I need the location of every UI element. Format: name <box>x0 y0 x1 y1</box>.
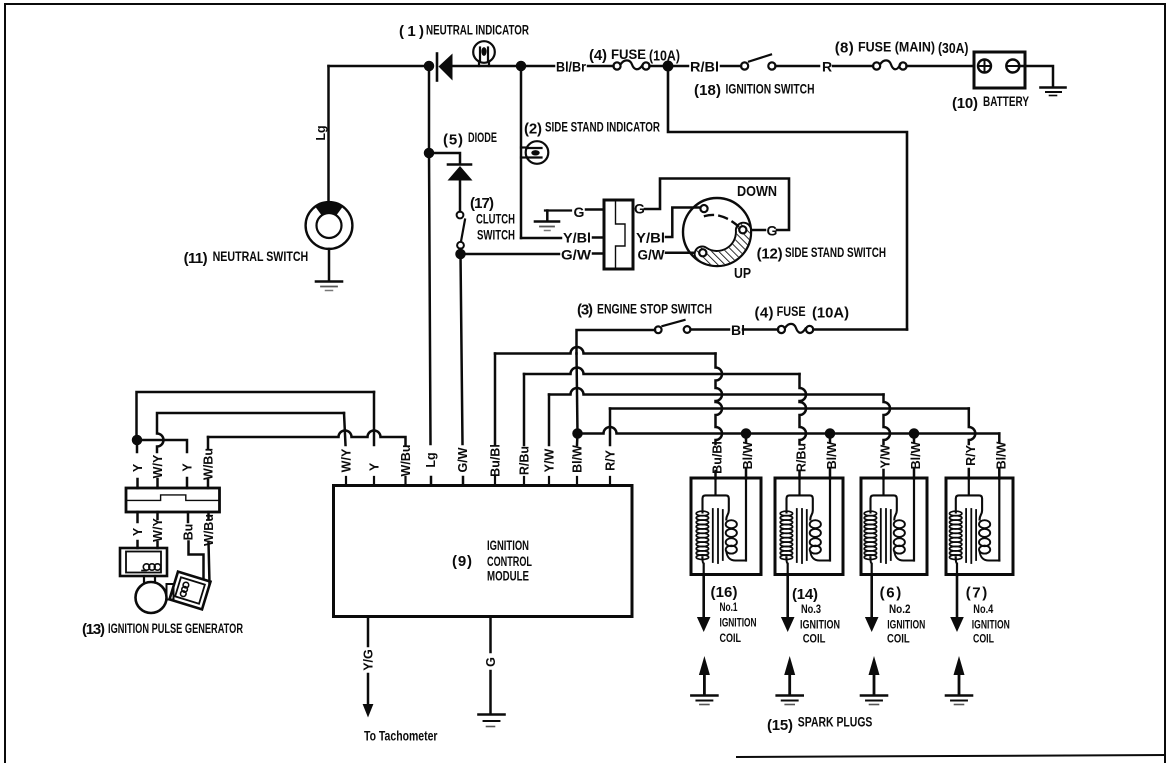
label (2) SIDE STAND INDICATOR <box>524 120 660 138</box>
connector: pulse generator 4P <box>126 488 220 512</box>
svg-text:Bl/W: Bl/W <box>741 441 755 469</box>
svg-text:R/Y: R/Y <box>964 444 978 466</box>
svg-text:IGNITION PULSE GENERATOR: IGNITION PULSE GENERATOR <box>108 621 243 636</box>
svg-text:Y: Y <box>131 527 145 536</box>
spark plug 3 <box>777 656 803 705</box>
svg-text:R/Bu: R/Bu <box>795 443 809 472</box>
svg-text:W/Y: W/Y <box>151 518 165 542</box>
node: Bl/W junction <box>574 430 582 438</box>
wire: indicator corner to Y/Bl label <box>521 237 561 240</box>
svg-text:R: R <box>822 59 832 75</box>
svg-text:Y/W: Y/W <box>879 444 893 468</box>
wire: coil3 Bl/W stub <box>829 469 832 479</box>
svg-text:W/Y: W/Y <box>340 448 354 472</box>
label (10) BATTERY <box>952 94 1029 112</box>
svg-text:NEUTRAL INDICATOR: NEUTRAL INDICATOR <box>426 23 529 38</box>
pickup coil right (rotated) <box>170 572 211 610</box>
bus wire Y/W with hop <box>549 388 884 394</box>
side stand switch: terminal pins <box>699 205 746 256</box>
svg-text:R/Bl: R/Bl <box>690 59 719 75</box>
wire: W/Y pin into pickup <box>156 542 159 548</box>
svg-text:(6): (6) <box>880 585 902 602</box>
svg-text:G: G <box>484 657 498 667</box>
wire: coil2 Y/W drop with hops <box>884 395 891 445</box>
svg-text:UP: UP <box>734 265 751 282</box>
label (14) No.3 IGNITION COIL <box>792 586 840 646</box>
pickup right tab <box>167 584 174 600</box>
svg-text:(10): (10) <box>952 95 978 112</box>
svg-text:(2): (2) <box>524 121 542 138</box>
svg-text:G: G <box>634 201 645 217</box>
wire: battery rail top <box>329 65 430 68</box>
side stand switch: DOWN position dashed contact <box>705 215 738 226</box>
wire: clutch switch to junction <box>459 249 462 254</box>
wire: Bl/W riser to ICM <box>576 434 579 446</box>
svg-text:FUSE: FUSE <box>777 304 806 319</box>
wire: junction L-path down right side <box>668 66 907 330</box>
svg-text:Y: Y <box>131 463 145 472</box>
ground: G pin ground symbol <box>535 211 571 231</box>
wire: Y/W riser to ICM <box>548 395 551 446</box>
svg-text:COIL: COIL <box>887 632 910 646</box>
spark plug 4 <box>946 656 972 705</box>
wire: G/W riser to ICM <box>461 254 463 444</box>
wire: Y riser1 below junction <box>136 440 139 452</box>
svg-text:Lg: Lg <box>314 125 328 140</box>
svg-text:SIDE STAND INDICATOR: SIDE STAND INDICATOR <box>545 120 660 135</box>
svg-text:IGNITION: IGNITION <box>972 618 1010 632</box>
ignition coil (16) No.1 <box>691 478 761 575</box>
svg-text:W/Bu: W/Bu <box>202 448 216 480</box>
svg-text:(17): (17) <box>470 195 494 212</box>
wire: Y net horizontal to second riser <box>137 440 187 452</box>
wire: G loop to side stand switch (DOWN side) <box>645 179 789 231</box>
wire: Bu/Bl riser to ICM <box>494 354 497 446</box>
wire: W/Y line <box>157 413 344 452</box>
svg-text:(8): (8) <box>835 40 854 57</box>
svg-text:(14): (14) <box>792 586 818 603</box>
svg-text:BATTERY: BATTERY <box>983 94 1029 109</box>
side stand switch: moving contact (UP, hatched) <box>702 230 743 258</box>
wire: coil4 R/Y drop with hop <box>969 409 976 445</box>
svg-text:(5): (5) <box>443 132 463 149</box>
wire: fuse8 to battery <box>907 65 975 68</box>
wire: R/Y riser to ICM <box>609 409 612 446</box>
switch (11) neutral switch <box>306 202 353 249</box>
wire: fuse4 to junction <box>650 65 669 68</box>
svg-text:(18): (18) <box>694 82 721 99</box>
svg-text:G/W: G/W <box>638 247 666 263</box>
label (4) FUSE (10A) lower <box>755 304 850 322</box>
svg-text:To Tachometer: To Tachometer <box>364 729 438 744</box>
wire: Bl/Br to fuse4 <box>588 65 614 68</box>
wire: Y riser to ICM <box>373 392 376 445</box>
label (17) CLUTCH SWITCH <box>470 195 515 243</box>
svg-text:Y: Y <box>181 463 195 472</box>
svg-text:R/Bu: R/Bu <box>518 446 532 475</box>
ground: battery <box>1041 88 1066 96</box>
wire: coil4 Bl/W stub <box>998 469 1001 479</box>
label (4) FUSE (10A) top <box>589 47 680 65</box>
node: rail junction at diode branch <box>425 62 433 70</box>
svg-text:G/W: G/W <box>561 247 592 263</box>
wire: R/Bl to ignition switch <box>721 65 741 68</box>
wire: Y riser2 stub <box>186 478 189 488</box>
wire: G/W to switch bottom terminal <box>666 252 699 255</box>
svg-text:SPARK PLUGS: SPARK PLUGS <box>798 715 873 730</box>
wire: coil1 Bu/Bl drop with hops <box>716 354 723 445</box>
node: clutch/GW junction <box>457 250 465 258</box>
svg-text:MODULE: MODULE <box>487 569 529 584</box>
svg-text:(9): (9) <box>452 553 472 570</box>
svg-text:(11): (11) <box>184 250 208 267</box>
wire: engine stop drop to Bl/W <box>577 354 578 434</box>
svg-text:CLUTCH: CLUTCH <box>476 212 515 227</box>
wire: coil2 Y/W stub <box>882 470 885 479</box>
svg-text:(4): (4) <box>755 305 774 322</box>
pickup neck <box>144 576 155 583</box>
label (18) IGNITION SWITCH <box>694 82 815 100</box>
svg-text:(13): (13) <box>82 621 105 638</box>
wire: coil1 Bl/W stub <box>745 469 748 479</box>
label (15) SPARK PLUGS <box>767 715 872 735</box>
svg-text:Bu/Bl: Bu/Bl <box>711 441 725 474</box>
wire: Bl label to fuse <box>743 328 778 331</box>
wire: W/Y riser to ICM <box>344 413 346 445</box>
pulse rotor <box>136 582 167 613</box>
svg-text:IGNITION: IGNITION <box>720 616 757 630</box>
svg-text:COIL: COIL <box>720 631 742 645</box>
wire: engine stop row left corner <box>577 330 656 354</box>
wire: Bu pin below connector <box>187 512 190 522</box>
svg-text:DOWN: DOWN <box>737 183 777 200</box>
wire: coil3 R/Bu drop with hops <box>800 374 807 444</box>
ground: neutral switch <box>316 282 342 291</box>
label (5) DIODE <box>443 130 497 149</box>
svg-text:No.3: No.3 <box>801 602 821 616</box>
wire: coil1 Bl/W drop <box>745 434 748 443</box>
wire: W/Y riser stub <box>156 479 159 488</box>
ICM pin stubs <box>346 477 610 486</box>
wire: R/Bu riser to ICM <box>523 374 526 445</box>
svg-text:Bu/Bl: Bu/Bl <box>489 444 503 477</box>
wire: coil3 R/Bu stub <box>798 471 801 479</box>
ground: ICM <box>479 715 505 727</box>
wire: coil4 R/Y stub <box>968 469 971 479</box>
wire: coil2 Bl/W stub <box>913 469 916 479</box>
svg-text:(16): (16) <box>711 584 738 601</box>
svg-text:Bu: Bu <box>182 524 196 541</box>
wire: branch to diode5 <box>429 153 460 164</box>
node: rail junction side stand branch <box>517 62 525 70</box>
svg-text:Y/W: Y/W <box>543 448 557 472</box>
bus wire R/Bu with hop <box>524 368 800 375</box>
svg-text:IGNITION SWITCH: IGNITION SWITCH <box>726 82 815 97</box>
wire: diode5 to clutch switch <box>459 180 462 212</box>
lamp (1) neutral indicator <box>473 41 495 66</box>
label (11) NEUTRAL SWITCH <box>184 249 309 267</box>
lamp (2) side stand indicator <box>521 141 548 164</box>
svg-text:(15): (15) <box>767 717 793 734</box>
svg-text:COIL: COIL <box>803 632 826 646</box>
wire: Bu pin to rotated pickup <box>189 542 204 579</box>
wire: Y/G to tachometer arrow <box>367 674 370 705</box>
wire: G ground pin <box>489 617 492 653</box>
svg-text:COIL: COIL <box>973 632 994 646</box>
wire: coil1 Bu/Bl stub <box>714 471 717 479</box>
svg-text:CONTROL: CONTROL <box>487 554 532 569</box>
wire: G/W junction to label <box>461 253 560 256</box>
wire: battery minus to ground <box>1019 66 1053 87</box>
switch (12) side stand switch body <box>683 198 751 266</box>
wire: fuse to right riser <box>813 328 907 331</box>
wire: Y pin into pickup <box>136 541 139 548</box>
svg-text:SWITCH: SWITCH <box>477 228 515 243</box>
svg-text:SIDE STAND SWITCH: SIDE STAND SWITCH <box>785 245 886 260</box>
wire: G label to connector <box>586 208 604 211</box>
wire: Y pin below connector <box>136 512 139 522</box>
svg-text:ENGINE STOP SWITCH: ENGINE STOP SWITCH <box>597 302 712 317</box>
node: junction diode5 branch <box>425 149 433 157</box>
svg-text:R/Y: R/Y <box>604 449 618 471</box>
wire: side stand indicator drop <box>520 66 523 238</box>
svg-text:(10A): (10A) <box>812 305 849 322</box>
bus wire Bu/Bl with hop <box>495 347 716 354</box>
svg-text:(3): (3) <box>577 302 593 319</box>
label (8) FUSE (MAIN) (30A) <box>835 40 969 58</box>
wire: rail indicator to Bl/Br <box>521 65 554 68</box>
svg-text:G: G <box>574 204 585 220</box>
svg-text:FUSE: FUSE <box>611 47 646 62</box>
label (16) No.1 IGNITION COIL <box>711 584 757 645</box>
wire: Lg long vertical to ICM <box>428 66 431 153</box>
pickup coil left (13) <box>120 548 167 576</box>
wire: W/Bu pin below connector <box>207 512 210 519</box>
connector: 6P coupler <box>604 200 633 269</box>
node: coil2 Bl/W junction <box>910 430 918 438</box>
wire: neutral switch to ground <box>328 249 331 281</box>
svg-text:NEUTRAL SWITCH: NEUTRAL SWITCH <box>213 249 309 264</box>
wire: W/Bu left riser <box>207 437 210 448</box>
fuse (8) main 30A <box>873 60 907 69</box>
svg-text:FUSE (MAIN): FUSE (MAIN) <box>858 40 935 55</box>
wire: G label to ground <box>489 671 492 714</box>
wire: coil4 Bl/W end drop <box>998 434 1001 443</box>
wire: Y/Bl label to connector <box>593 236 604 239</box>
node: Y net junction <box>133 436 141 444</box>
diode D on rail (neutral circuit) <box>437 54 453 81</box>
svg-text:Bl/W: Bl/W <box>909 441 923 469</box>
diode (5) <box>448 165 473 181</box>
spark plug 1 <box>691 656 717 705</box>
svg-text:IGNITION: IGNITION <box>887 618 925 632</box>
wire: G label to switch terminal <box>746 229 765 232</box>
svg-text:Lg: Lg <box>424 452 438 467</box>
wire: rail diode to indicator <box>452 65 521 68</box>
wire: W/Y pin below connector <box>156 512 159 519</box>
ignition coil (14) No.3 <box>775 478 843 575</box>
battery (10) <box>974 52 1025 88</box>
spark plug 2 <box>861 656 887 705</box>
wire: R to fuse8 <box>833 65 873 68</box>
svg-text:W/Bu: W/Bu <box>399 445 413 477</box>
wire: ignition switch to R <box>776 65 820 68</box>
svg-text:Bl/W: Bl/W <box>571 445 585 473</box>
svg-text:No.4: No.4 <box>973 602 993 616</box>
ignition coil (7) No.4 <box>946 478 1013 575</box>
wire: G/W stub to ICM pin <box>462 477 465 486</box>
label (6) No.2 IGNITION COIL <box>880 585 926 646</box>
bus wire R/Y <box>610 407 969 410</box>
svg-text:(1): (1) <box>399 23 424 40</box>
svg-text:(30A): (30A) <box>938 40 969 57</box>
svg-text:(4): (4) <box>589 47 607 64</box>
svg-text:Y/Bl: Y/Bl <box>636 230 665 246</box>
svg-text:G/W: G/W <box>456 447 470 472</box>
wire: G/W label to connector <box>593 252 604 255</box>
fuse (4) 10A on rail <box>613 60 649 69</box>
switch (3) engine stop switch <box>655 320 691 333</box>
label (12) SIDE STAND SWITCH <box>757 245 886 263</box>
IC module (9) box <box>334 486 633 617</box>
label (7) No.4 IGNITION COIL <box>966 585 1010 646</box>
svg-text:(12): (12) <box>757 246 783 263</box>
svg-text:No.1: No.1 <box>720 600 738 614</box>
svg-text:(10A): (10A) <box>649 48 680 65</box>
wire: W/Bu pin to rotated pickup <box>209 542 210 584</box>
wire: W/Bu riser stub <box>207 480 210 488</box>
svg-text:Y/Bl: Y/Bl <box>563 230 591 246</box>
svg-text:G: G <box>767 223 778 239</box>
svg-text:No.2: No.2 <box>889 602 911 616</box>
label (1) NEUTRAL INDICATOR <box>399 23 529 41</box>
wire: Y/Bl to switch top terminal <box>666 208 700 238</box>
label (3) ENGINE STOP SWITCH <box>577 302 712 319</box>
svg-text:Bl/W: Bl/W <box>994 441 1008 469</box>
svg-text:Y/G: Y/G <box>362 649 376 671</box>
switch (18) ignition switch <box>741 55 776 70</box>
svg-text:(7): (7) <box>966 585 988 602</box>
svg-text:DIODE: DIODE <box>468 130 497 145</box>
wire: coil3 Bl/W drop <box>829 434 832 443</box>
node: coil3 Bl/W junction <box>826 430 834 438</box>
wire: Y net top line to ICM <box>137 392 375 440</box>
label (9) IGNITION CONTROL MODULE <box>452 538 532 584</box>
svg-text:IGNITION: IGNITION <box>487 538 529 553</box>
wire: junction to R/Bl <box>668 65 688 68</box>
label (13) IGNITION PULSE GENERATOR <box>82 621 243 638</box>
wire: Lg drop to neutral switch <box>327 66 330 202</box>
wire: Y riser1 stub <box>136 479 139 488</box>
svg-text:IGNITION: IGNITION <box>800 618 840 632</box>
switch (17) clutch switch <box>457 212 465 249</box>
svg-text:Bl/Br: Bl/Br <box>556 59 586 75</box>
node: coil1 Bl/W junction <box>742 430 750 438</box>
node: rail junction fuse4 out <box>664 62 672 70</box>
ignition coil (6) No.2 <box>861 478 927 575</box>
wire: Lg label stub to ICM pin <box>430 477 433 486</box>
wire: coil2 Bl/W drop <box>913 434 916 443</box>
wire: W/Bu line with hops <box>208 431 406 445</box>
svg-text:Bl/W: Bl/W <box>825 441 839 469</box>
svg-text:W/Y: W/Y <box>151 454 165 478</box>
wire: Y/G output pin <box>367 617 370 647</box>
wire: switch to Bl label <box>691 328 730 331</box>
fuse (4) 10A lower <box>778 324 813 333</box>
svg-text:Y: Y <box>368 462 382 471</box>
bus wire Bl/W with hop over R/Y <box>578 427 1000 434</box>
